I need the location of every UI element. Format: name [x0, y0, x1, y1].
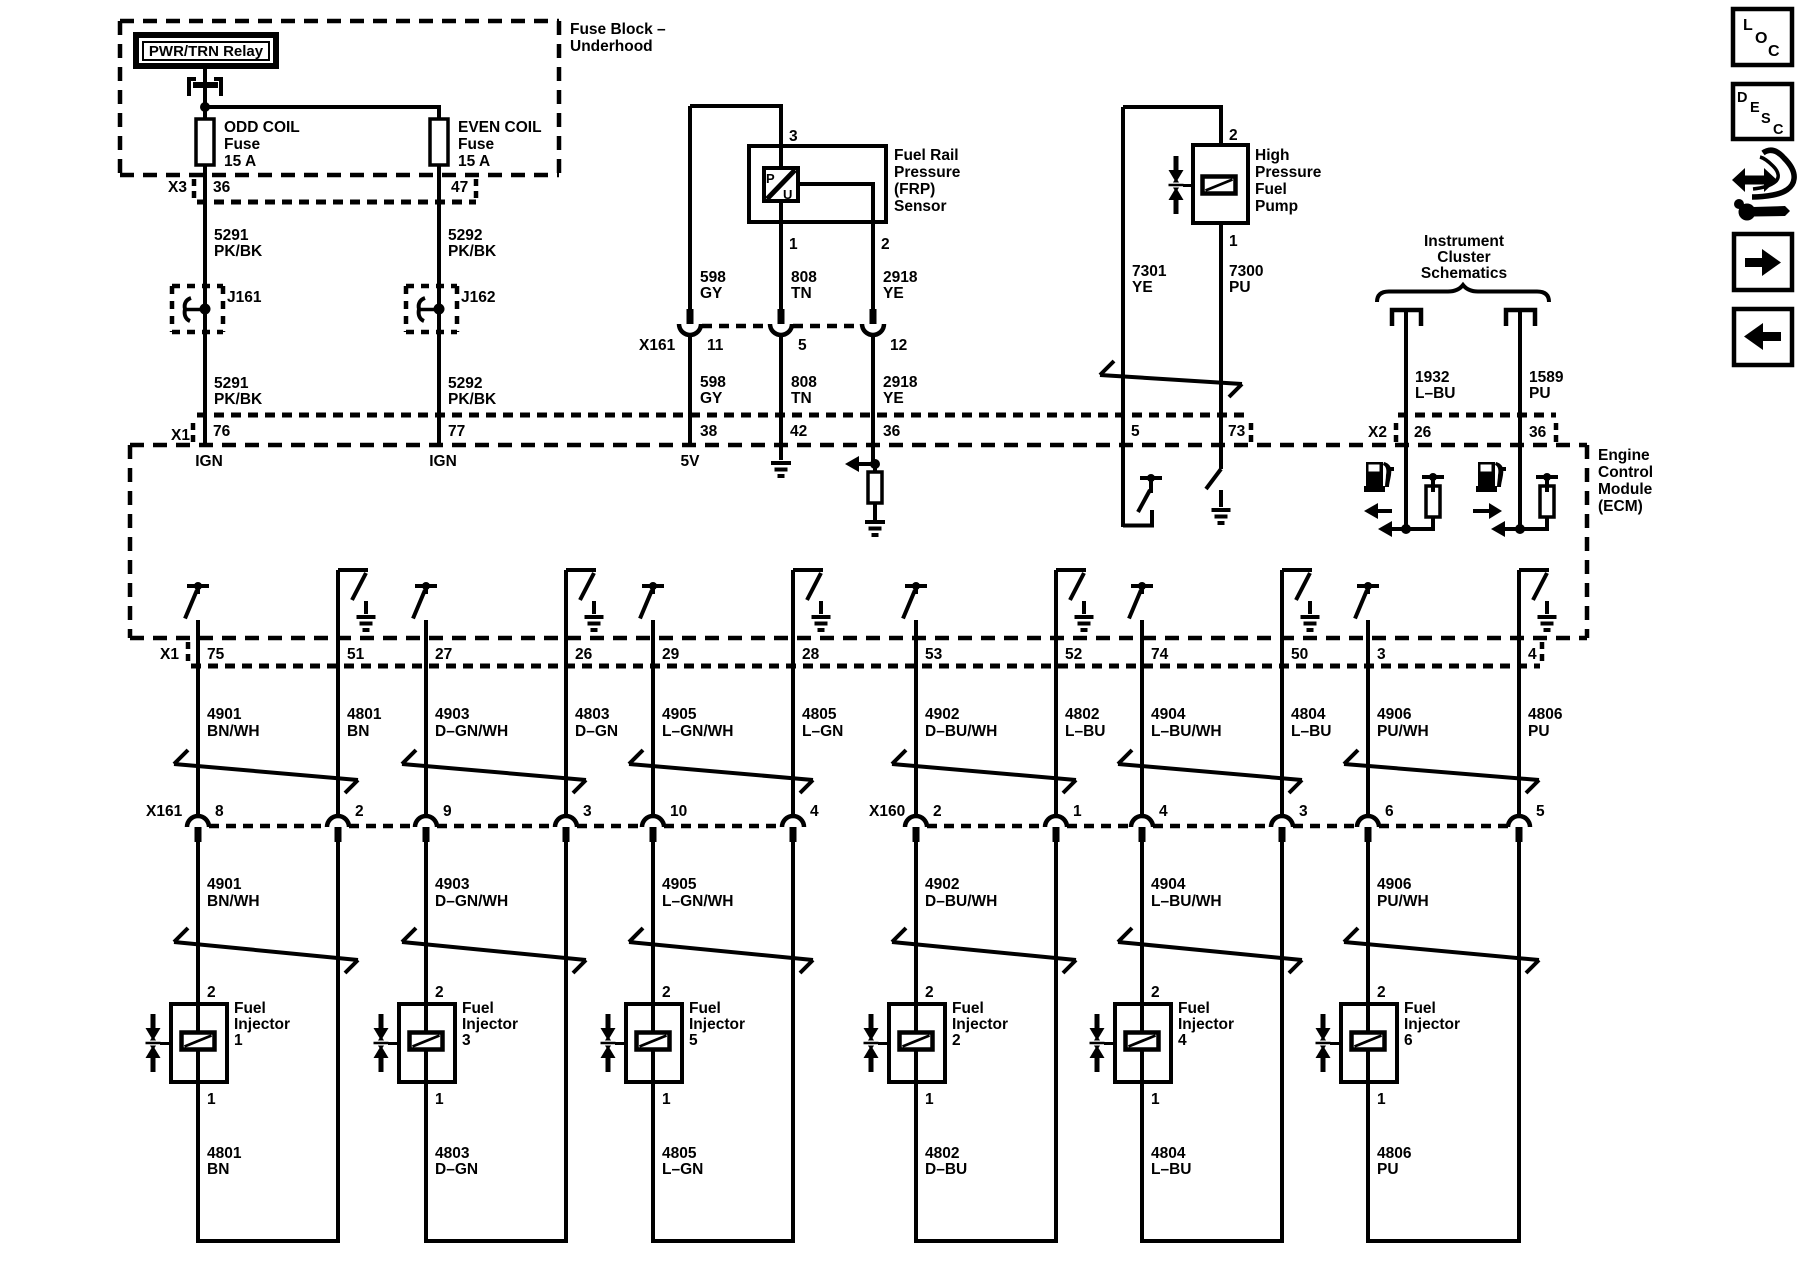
svg-text:4901: 4901 — [207, 876, 242, 893]
svg-text:42: 42 — [790, 423, 807, 440]
svg-text:4: 4 — [1178, 1032, 1187, 1049]
wire HPFP pin2 feed — [1121, 107, 1125, 445]
driver ground switch pin 4 — [1517, 570, 1521, 638]
svg-text:P: P — [766, 171, 775, 186]
svg-text:Cluster: Cluster — [1437, 249, 1490, 266]
svg-text:2: 2 — [1229, 127, 1238, 144]
svg-text:8: 8 — [215, 803, 224, 820]
FRP P/U transducer symbol — [764, 168, 798, 201]
splice J161 — [170, 286, 175, 332]
brace instrument cluster — [1377, 285, 1549, 302]
svg-text:BN/WH: BN/WH — [207, 893, 260, 910]
svg-text:2: 2 — [1377, 984, 1386, 1001]
svg-text:Injector: Injector — [234, 1016, 290, 1033]
svg-text:9: 9 — [443, 803, 452, 820]
svg-text:TN: TN — [791, 390, 812, 407]
fuel injector 3 nozzle — [379, 1014, 384, 1028]
wire injector 5 pin1 down — [651, 1082, 655, 1243]
svg-text:X3: X3 — [168, 179, 187, 196]
crossing arrow HPFP circuits — [1100, 375, 1242, 384]
svg-text:36: 36 — [883, 423, 901, 440]
wire U-turn 4806 — [1366, 1239, 1521, 1243]
svg-text:5: 5 — [1131, 423, 1140, 440]
junction dot pin 36 — [870, 459, 880, 469]
svg-text:Underhood: Underhood — [570, 38, 653, 55]
svg-text:Injector: Injector — [689, 1016, 745, 1033]
wire driver pin 27 to border — [424, 620, 428, 638]
svg-text:808: 808 — [791, 269, 817, 286]
wire segment X1 pin 52 to X161 — [1054, 638, 1058, 815]
fuel injector 1 box — [171, 1004, 227, 1082]
connector terminal 5 at x1519 — [1508, 816, 1530, 827]
svg-text:4804: 4804 — [1291, 706, 1326, 723]
svg-text:IGN: IGN — [429, 453, 457, 470]
crossing arrow pair 5 lower — [1118, 942, 1302, 960]
svg-text:2: 2 — [1151, 984, 1160, 1001]
wire segment X1 pin 50 to X161 — [1280, 638, 1284, 815]
wire pin 26 internal — [1404, 445, 1408, 529]
fuel injector 6 box — [1341, 1004, 1397, 1082]
wire driver pin 29 to border — [651, 620, 655, 638]
svg-text:12: 12 — [890, 337, 907, 354]
svg-text:PWR/TRN Relay: PWR/TRN Relay — [149, 43, 264, 60]
wire injector 6 pin1 down — [1366, 1082, 1370, 1243]
wire bus to fuses — [205, 105, 441, 109]
svg-text:1: 1 — [1229, 233, 1238, 250]
svg-text:BN/WH: BN/WH — [207, 723, 260, 740]
connector terminal 9 at x426 — [415, 816, 437, 827]
wire return 4806 segment — [1517, 842, 1521, 1243]
svg-text:GY: GY — [700, 285, 723, 302]
svg-text:4902: 4902 — [925, 706, 959, 723]
svg-text:Injector: Injector — [1178, 1016, 1234, 1033]
engine control module ECM dashed box — [130, 443, 1587, 448]
connector terminal 1 at x1056 — [1045, 816, 1067, 827]
wire U-turn 4801 — [196, 1239, 340, 1243]
svg-text:5292: 5292 — [448, 375, 482, 392]
svg-text:PK/BK: PK/BK — [448, 391, 497, 408]
wire FRP pin3 feed — [688, 106, 692, 310]
signal arrow left pin 26 — [1377, 509, 1392, 513]
crossing arrow pair 4 lower — [892, 942, 1076, 960]
svg-text:L–GN: L–GN — [662, 1161, 703, 1178]
wire U-turn 4803 — [424, 1239, 568, 1243]
svg-text:3: 3 — [789, 128, 798, 145]
instrument cluster terminal left — [1392, 310, 1421, 326]
crossing arrow pair 3 lower — [629, 942, 813, 960]
svg-text:Fuel: Fuel — [1255, 181, 1287, 198]
wire injector 4 pin1 down — [1140, 1082, 1144, 1243]
svg-text:36: 36 — [1529, 424, 1547, 441]
junction dot pin 36 X2 — [1515, 524, 1525, 534]
svg-text:YE: YE — [883, 390, 904, 407]
ground symbol pin 42 — [771, 461, 791, 465]
svg-text:L–GN/WH: L–GN/WH — [662, 893, 733, 910]
svg-text:3: 3 — [1299, 803, 1308, 820]
svg-text:Injector: Injector — [952, 1016, 1008, 1033]
svg-text:Fuel: Fuel — [689, 1000, 721, 1017]
connector terminal 10 at x653 — [642, 816, 664, 827]
crossing arrow pair 1 upper — [174, 764, 358, 780]
svg-text:L–BU: L–BU — [1065, 723, 1105, 740]
svg-text:PU: PU — [1229, 279, 1251, 296]
svg-text:D–GN/WH: D–GN/WH — [435, 723, 508, 740]
wire U-turn 4805 — [651, 1239, 795, 1243]
icon forward arrow button — [1734, 234, 1792, 290]
svg-text:Fuse Block –: Fuse Block – — [570, 21, 666, 38]
signal arrow pin 36 — [859, 462, 875, 466]
wire 5291 PK/BK lower segment — [203, 332, 207, 445]
wire injector 1 pin1 down — [196, 1082, 200, 1243]
FRP sensor box — [749, 146, 886, 222]
svg-text:3: 3 — [462, 1032, 471, 1049]
HPFP nozzle symbol — [1174, 156, 1179, 170]
instrument cluster terminal right — [1506, 310, 1535, 326]
svg-text:High: High — [1255, 147, 1289, 164]
junction dot relay feed — [200, 102, 210, 112]
crossing arrow pair 2 upper — [402, 764, 586, 780]
svg-text:D–BU/WH: D–BU/WH — [925, 723, 997, 740]
svg-text:53: 53 — [925, 646, 943, 663]
high pressure fuel pump box — [1193, 145, 1248, 223]
svg-text:15 A: 15 A — [224, 153, 256, 170]
svg-text:11: 11 — [707, 337, 724, 354]
svg-text:BN: BN — [347, 723, 369, 740]
fuel injector 3 box — [399, 1004, 455, 1082]
svg-text:4903: 4903 — [435, 876, 470, 893]
svg-text:X1: X1 — [160, 646, 179, 663]
signal arrow right pin 36 X2 — [1473, 509, 1489, 513]
wire driver pin 74 to border — [1140, 620, 1144, 638]
svg-text:IGN: IGN — [195, 453, 223, 470]
svg-text:52: 52 — [1065, 646, 1082, 663]
wire 598 GY lower — [688, 334, 692, 445]
svg-text:74: 74 — [1151, 646, 1169, 663]
svg-text:X2: X2 — [1368, 424, 1387, 441]
svg-text:1: 1 — [925, 1091, 934, 1108]
fuel injector 3 solenoid — [410, 1033, 443, 1050]
svg-text:5V: 5V — [681, 453, 701, 470]
driver ground switch pin 51 — [336, 570, 340, 638]
svg-text:PK/BK: PK/BK — [214, 243, 263, 260]
svg-text:4905: 4905 — [662, 706, 697, 723]
icon back arrow button — [1734, 309, 1792, 365]
fuel injector 4 solenoid — [1126, 1033, 1159, 1050]
wire 4902 to injector 2 — [914, 842, 918, 1004]
ground symbol pin 28 — [819, 601, 823, 614]
svg-text:L–BU/WH: L–BU/WH — [1151, 893, 1222, 910]
svg-text:4: 4 — [1528, 646, 1537, 663]
svg-text:Sensor: Sensor — [894, 198, 947, 215]
svg-text:PU/WH: PU/WH — [1377, 893, 1429, 910]
svg-text:4904: 4904 — [1151, 706, 1186, 723]
svg-text:4: 4 — [810, 803, 819, 820]
svg-text:3: 3 — [583, 803, 592, 820]
svg-text:5291: 5291 — [214, 227, 249, 244]
svg-text:4806: 4806 — [1377, 1145, 1412, 1162]
svg-text:2918: 2918 — [883, 269, 918, 286]
svg-text:J161: J161 — [227, 289, 262, 306]
connector terminal 4 at x1142 — [1131, 816, 1153, 827]
svg-text:TN: TN — [791, 285, 812, 302]
injector driver switch pin 53 — [905, 584, 927, 588]
svg-text:L–GN: L–GN — [802, 723, 843, 740]
connector terminal 4 at x793 — [782, 816, 804, 827]
svg-text:4802: 4802 — [925, 1145, 959, 1162]
driver ground switch pin 26 — [564, 570, 568, 638]
svg-text:27: 27 — [435, 646, 452, 663]
svg-text:2: 2 — [207, 984, 216, 1001]
relay contact symbol — [189, 79, 196, 96]
svg-text:5: 5 — [798, 337, 807, 354]
svg-text:Injector: Injector — [1404, 1016, 1460, 1033]
svg-text:1: 1 — [207, 1091, 216, 1108]
svg-text:C: C — [1773, 122, 1784, 138]
svg-text:D–GN: D–GN — [575, 723, 618, 740]
injector driver switch pin 29 — [642, 584, 664, 588]
svg-text:2: 2 — [933, 803, 942, 820]
svg-text:1: 1 — [1073, 803, 1082, 820]
svg-text:50: 50 — [1291, 646, 1308, 663]
wire pin 36 X2 internal — [1518, 445, 1522, 529]
crossing arrow pair 1 lower — [174, 942, 358, 960]
crossing arrow pair 4 upper — [892, 764, 1076, 780]
svg-text:73: 73 — [1228, 423, 1246, 440]
wire segment X1 pin 74 to X161 — [1140, 638, 1144, 815]
svg-text:1: 1 — [435, 1091, 444, 1108]
svg-text:598: 598 — [700, 374, 726, 391]
wire 4905 to injector 5 — [651, 842, 655, 1004]
svg-text:5292: 5292 — [448, 227, 482, 244]
fuel injector 1 nozzle — [151, 1014, 156, 1028]
svg-text:Pressure: Pressure — [1255, 164, 1322, 181]
wire relay output — [203, 66, 207, 107]
ground symbol pin 52 — [1082, 601, 1086, 614]
svg-text:4904: 4904 — [1151, 876, 1186, 893]
svg-text:L–BU: L–BU — [1291, 723, 1331, 740]
relay PWR/TRN label box — [136, 35, 276, 66]
wire 5292 PK/BK lower segment — [437, 332, 441, 445]
dashed line connector X161 — [209, 824, 327, 829]
icon DESC button — [1733, 84, 1792, 139]
svg-text:Fuse: Fuse — [224, 136, 261, 153]
svg-text:Schematics: Schematics — [1421, 265, 1507, 282]
dashed line connector X160 — [927, 824, 1045, 829]
svg-text:Fuel: Fuel — [234, 1000, 266, 1017]
svg-text:28: 28 — [802, 646, 820, 663]
injector driver switch pin 75 — [187, 584, 209, 588]
svg-text:YE: YE — [883, 285, 904, 302]
svg-text:Fuel Rail: Fuel Rail — [894, 147, 959, 164]
svg-text:29: 29 — [662, 646, 680, 663]
fuel injector 4 nozzle — [1095, 1014, 1100, 1028]
svg-text:77: 77 — [448, 423, 465, 440]
svg-text:U: U — [783, 187, 792, 202]
svg-text:36: 36 — [213, 179, 231, 196]
svg-text:PU: PU — [1529, 385, 1551, 402]
HPFP solenoid symbol — [1203, 177, 1236, 194]
connector terminal 6 at x1368 — [1357, 816, 1379, 827]
svg-text:Pressure: Pressure — [894, 164, 961, 181]
svg-text:ODD COIL: ODD COIL — [224, 119, 300, 136]
svg-text:75: 75 — [207, 646, 225, 663]
fuse EVEN COIL 15 A — [430, 119, 448, 165]
svg-text:6: 6 — [1404, 1032, 1413, 1049]
wire FRP pin1 — [779, 201, 783, 310]
arrow to fuel pump left — [1392, 527, 1435, 531]
ground symbol pin 73 — [1219, 490, 1223, 507]
connector terminal 8 at x198 — [187, 816, 209, 827]
wire U-turn 4804 — [1140, 1239, 1284, 1243]
fuel injector 5 solenoid — [637, 1033, 670, 1050]
svg-text:L–GN/WH: L–GN/WH — [662, 723, 733, 740]
svg-text:D–GN/WH: D–GN/WH — [435, 893, 508, 910]
wire segment X1 pin 26 to X161 — [564, 638, 568, 815]
svg-text:1: 1 — [1377, 1091, 1386, 1108]
wire 4906 to injector 6 — [1366, 842, 1370, 1004]
svg-text:PK/BK: PK/BK — [214, 391, 263, 408]
fuel injector 2 nozzle — [869, 1014, 874, 1028]
svg-text:808: 808 — [791, 374, 817, 391]
svg-text:1: 1 — [662, 1091, 671, 1108]
svg-text:26: 26 — [1414, 424, 1432, 441]
wire return 4803 segment — [564, 842, 568, 1243]
svg-text:J162: J162 — [461, 289, 495, 306]
svg-text:Module: Module — [1598, 481, 1653, 498]
wire 4901 to injector 1 — [196, 842, 200, 1004]
svg-text:(ECM): (ECM) — [1598, 498, 1643, 515]
fuel injector 6 nozzle — [1321, 1014, 1326, 1028]
fuel injector 1 solenoid — [182, 1033, 215, 1050]
wire segment X1 pin 27 to X161 — [424, 638, 428, 815]
svg-text:Control: Control — [1598, 464, 1653, 481]
svg-text:1: 1 — [789, 236, 798, 253]
svg-text:Fuel: Fuel — [462, 1000, 494, 1017]
svg-text:5291: 5291 — [214, 375, 249, 392]
wire return 4804 segment — [1280, 842, 1284, 1243]
crossing arrow pair 3 upper — [629, 764, 813, 780]
svg-text:O: O — [1755, 30, 1767, 47]
wire return 4802 segment — [1054, 842, 1058, 1243]
svg-text:2: 2 — [925, 984, 934, 1001]
svg-text:X160: X160 — [869, 803, 905, 820]
icon vehicle symptoms — [1741, 176, 1766, 185]
wire injector 2 pin1 down — [914, 1082, 918, 1243]
fuel pump icon right — [1478, 462, 1495, 488]
svg-text:PU/WH: PU/WH — [1377, 723, 1429, 740]
wire 808 TN lower — [779, 334, 783, 460]
ground symbol pin 50 — [1308, 601, 1312, 614]
svg-text:C: C — [1768, 43, 1780, 60]
fuel injector 2 solenoid — [900, 1033, 933, 1050]
crossing arrow pair 5 upper — [1118, 764, 1302, 780]
wire 2918 YE lower — [871, 334, 875, 464]
svg-text:X161: X161 — [146, 803, 183, 820]
svg-text:26: 26 — [575, 646, 593, 663]
svg-text:L: L — [1743, 17, 1753, 34]
wire 4904 to injector 4 — [1140, 842, 1144, 1004]
svg-text:E: E — [1750, 100, 1760, 116]
icon LOC button — [1733, 9, 1792, 65]
svg-text:4801: 4801 — [347, 706, 382, 723]
fuse ODD COIL 15 A — [196, 119, 214, 165]
injector driver switch pin 3 — [1357, 584, 1379, 588]
splice J162 — [404, 286, 409, 332]
ground symbol pin 4 — [1545, 601, 1549, 614]
fuel injector 4 box — [1115, 1004, 1171, 1082]
wire segment X1 pin 3 to X161 — [1366, 638, 1370, 815]
svg-text:Fuel: Fuel — [952, 1000, 984, 1017]
svg-text:1932: 1932 — [1415, 369, 1449, 386]
svg-text:X1: X1 — [171, 427, 190, 444]
wire driver pin 75 to border — [196, 620, 200, 638]
svg-text:51: 51 — [347, 646, 365, 663]
wire segment X1 pin 75 to X161 — [196, 638, 200, 815]
crossing arrow pair 6 upper — [1344, 764, 1539, 780]
wire FRP pin2 — [798, 182, 875, 186]
svg-text:5: 5 — [1536, 803, 1545, 820]
ground symbol pin 26 — [592, 601, 596, 614]
svg-text:L–BU/WH: L–BU/WH — [1151, 723, 1222, 740]
fuel injector 5 box — [626, 1004, 682, 1082]
connector terminal 2 at x916 — [905, 816, 927, 827]
wire driver pin 3 to border — [1366, 620, 1370, 638]
svg-text:YE: YE — [1132, 279, 1153, 296]
svg-text:4806: 4806 — [1528, 706, 1563, 723]
svg-text:PK/BK: PK/BK — [448, 243, 497, 260]
svg-text:D–BU/WH: D–BU/WH — [925, 893, 997, 910]
svg-text:7300: 7300 — [1229, 263, 1263, 280]
svg-text:4803: 4803 — [575, 706, 610, 723]
fuse block - underhood dashed box — [120, 19, 559, 24]
svg-text:4805: 4805 — [662, 1145, 697, 1162]
svg-text:PU: PU — [1528, 723, 1550, 740]
ground symbol pin 51 — [364, 601, 368, 614]
wire 5291 PK/BK upper segment — [203, 202, 207, 288]
svg-text:2: 2 — [355, 803, 364, 820]
svg-text:D–GN: D–GN — [435, 1161, 478, 1178]
svg-text:10: 10 — [670, 803, 687, 820]
connector terminal 3 at x566 — [555, 816, 577, 827]
svg-text:1: 1 — [234, 1032, 243, 1049]
wire U-turn 4802 — [914, 1239, 1058, 1243]
wire 5292 PK/BK upper segment — [437, 202, 441, 288]
svg-text:4901: 4901 — [207, 706, 242, 723]
svg-text:2: 2 — [881, 236, 890, 253]
svg-text:47: 47 — [451, 179, 468, 196]
svg-text:Instrument: Instrument — [1424, 233, 1504, 250]
svg-text:4: 4 — [1159, 803, 1168, 820]
fuel injector 2 box — [889, 1004, 945, 1082]
fuel injector 5 nozzle — [606, 1014, 611, 1028]
svg-text:L–BU: L–BU — [1151, 1161, 1191, 1178]
svg-text:2918: 2918 — [883, 374, 918, 391]
driver ground switch pin 28 — [791, 570, 795, 638]
svg-text:4801: 4801 — [207, 1145, 242, 1162]
svg-text:2: 2 — [662, 984, 671, 1001]
svg-text:4804: 4804 — [1151, 1145, 1186, 1162]
svg-text:Fuse: Fuse — [458, 136, 495, 153]
svg-text:Fuel: Fuel — [1178, 1000, 1210, 1017]
svg-text:7301: 7301 — [1132, 263, 1167, 280]
svg-text:38: 38 — [700, 423, 718, 440]
wire segment X1 pin 29 to X161 — [651, 638, 655, 815]
wire HPFP pin1 7300 PU — [1219, 223, 1223, 445]
crossing arrow pair 2 lower — [402, 942, 586, 960]
svg-text:D–BU: D–BU — [925, 1161, 967, 1178]
wire segment X1 pin 4 to X161 — [1517, 638, 1521, 815]
resistor pin 36 X2 — [1536, 475, 1558, 479]
